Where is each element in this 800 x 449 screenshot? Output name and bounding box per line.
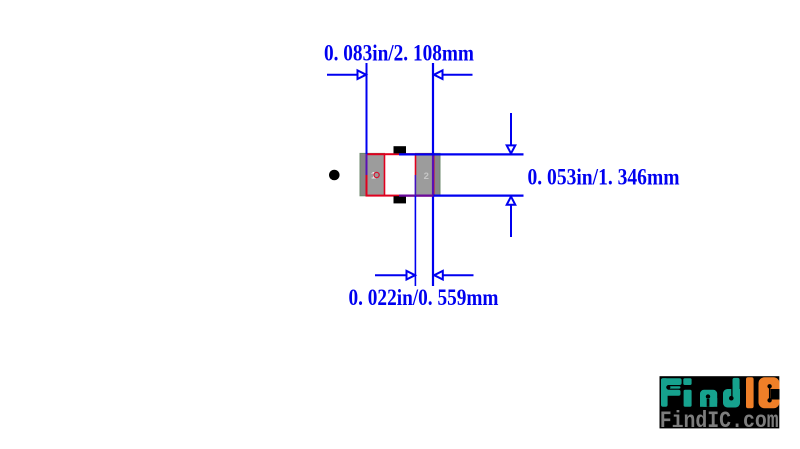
- svg-text:0. 053in/1. 346mm: 0. 053in/1. 346mm: [528, 165, 680, 190]
- right dim arrowhead upper (points down): [507, 145, 516, 153]
- svg-text:FindIC.com: FindIC.com: [660, 408, 779, 434]
- right dim extension line bottom (dark overlap on body): [399, 195, 434, 197]
- polarity tab bottom (black): [394, 196, 407, 203]
- pad 2 (right grey pad): [416, 153, 441, 195]
- right dim extension line bottom: [434, 195, 524, 197]
- right dim arrow line upper: [510, 113, 512, 147]
- right dim arrow line lower: [510, 205, 512, 238]
- svg-text:0. 022in/0. 559mm: 0. 022in/0. 559mm: [349, 285, 499, 310]
- pad 1 (left grey pad): [360, 153, 385, 195]
- logo letter C (orange): [759, 377, 780, 408]
- top dim arrow line right: [443, 74, 473, 76]
- extension line left overlap body edge (purple): [366, 154, 368, 175]
- bottom dim arrowhead right (points left): [434, 271, 443, 280]
- logo letter I (orange): [746, 377, 754, 408]
- black reference dot: [329, 170, 340, 181]
- component body outline (red, translucent white fill): [367, 154, 434, 195]
- top dim arrow line left: [327, 74, 359, 76]
- top dim arrowhead right (points left): [434, 70, 443, 79]
- bottom dim arrow line left: [375, 274, 407, 276]
- extension line right lower part: [432, 196, 434, 287]
- extension line right overlap body edge (purple): [432, 154, 434, 196]
- bottom dim arrowhead left (points right): [407, 271, 416, 280]
- bottom dim extension line left lower: [414, 196, 416, 286]
- right dim arrowhead lower (points up): [507, 197, 516, 205]
- pin 1 marker circle: [374, 172, 379, 177]
- body terminal line right-inner (red upper part): [415, 154, 417, 175]
- svg-text:0. 083in/2. 108mm: 0. 083in/2. 108mm: [324, 41, 474, 66]
- bottom dim arrow line right: [443, 274, 474, 276]
- logo letter F (teal): [661, 378, 682, 407]
- logo letter i (teal): [683, 378, 691, 407]
- body terminal line left-inner: [384, 154, 386, 195]
- polarity tab top (black): [394, 146, 407, 153]
- extension line left (top dim): [366, 63, 368, 154]
- extension line right (top dim, full): [432, 63, 434, 154]
- right dim extension line top: [399, 153, 524, 155]
- FindIC logo black box: [660, 376, 780, 428]
- bottom dim extension line left (x=415.5): [414, 175, 416, 196]
- logo letter d (teal): [723, 378, 740, 408]
- logo F node dot: [666, 385, 670, 389]
- logo letter n (teal): [700, 390, 717, 407]
- svg-text:2: 2: [424, 171, 429, 182]
- top dim arrowhead left (points right): [358, 70, 367, 79]
